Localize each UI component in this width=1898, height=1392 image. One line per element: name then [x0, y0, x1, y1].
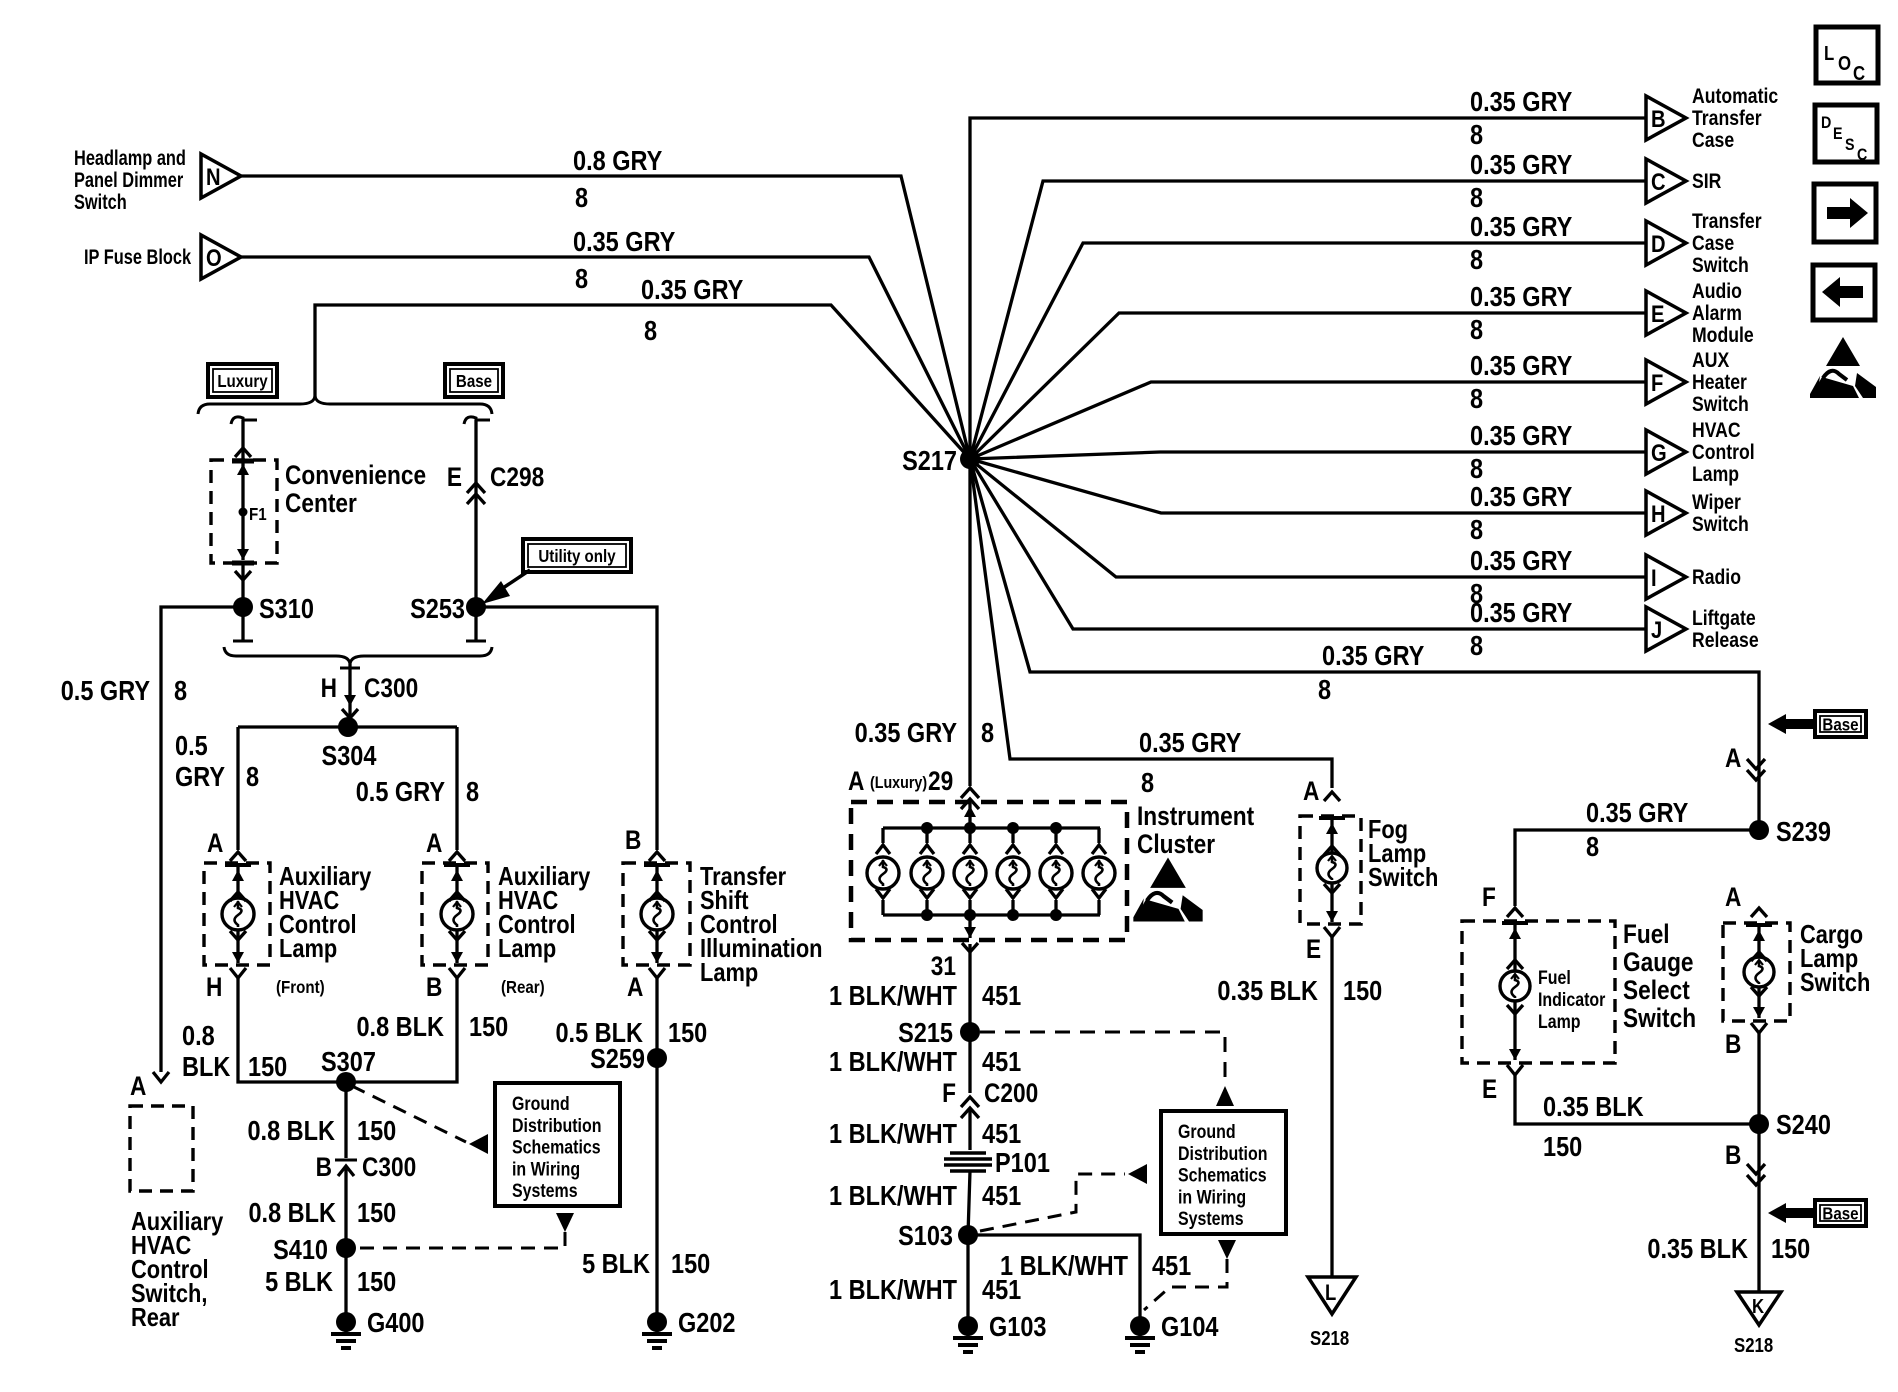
svg-text:O: O — [206, 244, 222, 271]
wire cluster 31 to S215 — [968, 944, 971, 1032]
label 8 (convenience wire) — [644, 316, 657, 346]
svg-text:150: 150 — [1771, 1234, 1810, 1264]
svg-text:0.35 GRY: 0.35 GRY — [1470, 150, 1572, 180]
svg-text:0.35 BLK: 0.35 BLK — [1217, 976, 1318, 1006]
component box Instrument Cluster (dashed) — [851, 802, 1127, 940]
brace under S310/S253 — [224, 647, 492, 664]
svg-text:Distribution: Distribution — [1178, 1142, 1267, 1164]
wire to S239 — [1757, 760, 1760, 830]
svg-text:K: K — [1752, 1295, 1765, 1318]
label 150 (S240-K wire) — [1771, 1234, 1810, 1264]
svg-text:8: 8 — [1470, 515, 1483, 545]
reference arrow Base (bottom right) — [1768, 1200, 1866, 1226]
label 0.35 GRY (row B) — [1470, 87, 1572, 117]
wire 0.35 GRY from O to S217 — [241, 257, 970, 459]
label 0.35 GRY (row C) — [1470, 150, 1572, 180]
svg-text:Transfer: Transfer — [1692, 107, 1762, 131]
label 451 (S103-G103) — [982, 1275, 1021, 1305]
junction dot bottom bus x1013 — [1007, 909, 1019, 921]
svg-text:Heater: Heater — [1692, 371, 1747, 395]
svg-text:A: A — [627, 972, 643, 1002]
pin 31 (instrument cluster) — [931, 943, 978, 981]
svg-text:0.35 BLK: 0.35 BLK — [1543, 1092, 1644, 1122]
svg-text:Alarm: Alarm — [1692, 302, 1742, 326]
option box Base — [445, 364, 503, 397]
junction dot bottom bus x927 — [921, 909, 933, 921]
svg-text:C: C — [1853, 62, 1865, 85]
svg-text:1 BLK/WHT: 1 BLK/WHT — [829, 1275, 957, 1305]
pin A (front HVAC lamp) — [207, 828, 223, 858]
svg-text:S259: S259 — [590, 1044, 645, 1074]
splice S240 — [1749, 1110, 1831, 1140]
wire fog lamp switch to S218 L — [1330, 937, 1333, 1277]
svg-text:Base: Base — [1822, 1203, 1858, 1224]
label Convenience Center — [285, 460, 426, 518]
label 1 BLK/WHT (S103-G104) — [1000, 1251, 1128, 1281]
svg-text:Lamp: Lamp — [700, 958, 758, 987]
label 0.8 BLK (S307 wire) — [247, 1116, 335, 1146]
splice S310 — [233, 594, 314, 624]
component box Fuel Gauge Select Switch (dashed) — [1462, 921, 1615, 1063]
pin E (fog lamp switch) — [1306, 927, 1340, 964]
junction dot top bus x970 — [964, 822, 976, 834]
svg-text:Switch: Switch — [1623, 1003, 1696, 1033]
connector D destination label — [1692, 210, 1762, 278]
svg-text:S410: S410 — [273, 1235, 328, 1265]
svg-text:0.35 GRY: 0.35 GRY — [1470, 598, 1572, 628]
svg-text:8: 8 — [1470, 631, 1483, 661]
label 8 (row B) — [1470, 120, 1483, 150]
svg-text:Ground: Ground — [1178, 1121, 1236, 1143]
wire S259 to G202 — [655, 1058, 658, 1315]
label 0.35 GRY (row J) — [1470, 598, 1572, 628]
label 8 (rear lamp wire) — [466, 777, 479, 807]
label 150 (S259-G202 wire) — [671, 1249, 710, 1279]
connector C300 pin B — [316, 1152, 417, 1182]
reference arrow Base (top right) — [1768, 711, 1866, 737]
svg-text:S103: S103 — [898, 1221, 953, 1251]
label 0.35 GRY (O wire) — [573, 227, 675, 257]
svg-text:HVAC: HVAC — [1692, 419, 1741, 443]
lamp element (cargo lamp switch) — [1744, 925, 1774, 1018]
label 0.35 GRY (row F) — [1470, 351, 1572, 381]
label 0.35 GRY (row E) — [1470, 282, 1572, 312]
label 150 (S307 wire) — [357, 1116, 396, 1146]
legend box arrow right — [1814, 184, 1876, 242]
connector L (S218) — [1308, 1277, 1356, 1349]
wire S239 to fuel gauge select switch F — [1507, 830, 1759, 917]
wire 0.35 GRY from convenience center to S217 — [315, 305, 970, 459]
svg-text:0.8 GRY: 0.8 GRY — [573, 146, 662, 176]
cluster illumination lamp 4 — [997, 828, 1029, 915]
svg-text:5 BLK: 5 BLK — [582, 1249, 650, 1279]
svg-text:451: 451 — [982, 1119, 1021, 1149]
svg-text:Instrument: Instrument — [1137, 801, 1254, 831]
wire 0.35 GRY S217 to instrument cluster — [968, 459, 971, 786]
ground G202 — [642, 1308, 736, 1348]
label Instrument Cluster — [1137, 801, 1254, 859]
svg-text:1 BLK/WHT: 1 BLK/WHT — [829, 1119, 957, 1149]
svg-text:Liftgate: Liftgate — [1692, 607, 1756, 631]
ground G400 — [331, 1308, 425, 1348]
wire 0.35 GRY S217 to B — [970, 118, 1646, 459]
svg-text:Indicator: Indicator — [1538, 989, 1605, 1011]
svg-text:0.35 GRY: 0.35 GRY — [1470, 421, 1572, 451]
legend ESD symbol — [1810, 337, 1876, 398]
svg-text:Systems: Systems — [1178, 1208, 1244, 1230]
svg-text:Case: Case — [1692, 232, 1734, 256]
wire rear lamp B to S307 — [346, 978, 457, 1082]
connector N — [201, 154, 241, 198]
svg-text:8: 8 — [1586, 832, 1599, 862]
svg-text:1 BLK/WHT: 1 BLK/WHT — [1000, 1251, 1128, 1281]
dashed reference box 2 to G104 wire — [1144, 1240, 1236, 1310]
label 8 (cluster feed) — [981, 718, 994, 748]
svg-text:Wiper: Wiper — [1692, 491, 1741, 515]
svg-text:8: 8 — [981, 718, 994, 748]
wire 0.35 GRY S217 to F — [970, 382, 1646, 459]
wire S304 to front lamp A — [230, 727, 246, 861]
label 0.35 GRY (row I) — [1470, 546, 1572, 576]
dashed reference arrow box 1 to S410 wire — [352, 1213, 574, 1248]
connector N label (Headlamp and Panel Dimmer Switch) — [74, 146, 186, 213]
svg-text:AUX: AUX — [1692, 349, 1729, 373]
junction dot top bus x1013 — [1007, 822, 1019, 834]
svg-text:Fuel: Fuel — [1623, 919, 1670, 949]
connector H — [1646, 491, 1686, 535]
svg-text:8: 8 — [1318, 675, 1331, 705]
label Fuel Gauge Select Switch — [1623, 919, 1696, 1033]
label 0.35 BLK (E-S240 wire) — [1543, 1092, 1644, 1122]
component box Cargo Lamp Switch (dashed) — [1723, 923, 1790, 1021]
svg-text:150: 150 — [1343, 976, 1382, 1006]
svg-text:Utility only: Utility only — [538, 546, 616, 567]
svg-text:BLK: BLK — [182, 1052, 231, 1082]
svg-text:Lamp: Lamp — [1538, 1011, 1581, 1033]
splice S253 — [410, 594, 486, 624]
svg-text:150: 150 — [1543, 1132, 1582, 1162]
component box Fog Lamp Switch (dashed) — [1300, 816, 1361, 924]
svg-text:(Luxury): (Luxury) — [870, 774, 927, 792]
svg-text:S240: S240 — [1776, 1110, 1831, 1140]
svg-text:D: D — [1821, 114, 1831, 132]
svg-text:Case: Case — [1692, 129, 1734, 153]
svg-text:0.35 GRY: 0.35 GRY — [1470, 482, 1572, 512]
connector J destination label — [1692, 607, 1759, 653]
brace over Luxury/Base branches — [198, 396, 492, 414]
label 1 BLK/WHT (P101-S103) — [829, 1181, 957, 1211]
svg-text:B: B — [426, 972, 442, 1002]
svg-text:451: 451 — [982, 981, 1021, 1011]
svg-text:C300: C300 — [364, 673, 418, 703]
svg-text:L: L — [1325, 1282, 1336, 1306]
svg-text:Select: Select — [1623, 975, 1690, 1005]
wire 0.35 GRY S217 to H — [970, 459, 1646, 513]
splice S239 — [1749, 817, 1831, 847]
svg-text:G103: G103 — [989, 1312, 1047, 1342]
svg-text:S307: S307 — [321, 1047, 376, 1077]
svg-text:A: A — [130, 1071, 146, 1101]
cluster illumination lamp 3 — [954, 828, 986, 915]
junction dot bottom bus x1056 — [1050, 909, 1062, 921]
svg-text:Gauge: Gauge — [1623, 947, 1694, 977]
label 8 (right side wire) — [1318, 675, 1331, 705]
svg-text:1 BLK/WHT: 1 BLK/WHT — [829, 981, 957, 1011]
label 150 (rear lamp ground wire) — [469, 1012, 508, 1042]
wire C200 to P101 — [968, 1108, 971, 1150]
svg-text:C200: C200 — [984, 1078, 1038, 1108]
label 451 (S215-C200) — [982, 1047, 1021, 1077]
component box Auxiliary HVAC Control Lamp rear (dashed) — [422, 863, 488, 965]
label 1 BLK/WHT (S215-C200) — [829, 1047, 957, 1077]
connector F destination label — [1692, 349, 1749, 417]
pin B (transfer lamp) — [625, 825, 641, 855]
svg-text:0.8 BLK: 0.8 BLK — [356, 1012, 444, 1042]
svg-text:P101: P101 — [995, 1148, 1050, 1178]
svg-text:B: B — [1725, 1029, 1741, 1059]
connector C200 pin F — [942, 1078, 1038, 1118]
pin B (cargo lamp switch) — [1725, 1023, 1767, 1059]
pin E (fuel gauge select switch) — [1482, 1065, 1523, 1104]
svg-text:S253: S253 — [410, 594, 465, 624]
wire Luxury branch to F1 fuse — [231, 417, 257, 462]
label 8 (fog lamp wire) — [1141, 768, 1154, 798]
wire 0.35 GRY S217 to C — [970, 181, 1646, 459]
svg-text:F: F — [942, 1078, 956, 1108]
svg-text:0.35 BLK: 0.35 BLK — [1647, 1234, 1748, 1264]
svg-text:Switch: Switch — [1692, 513, 1749, 537]
splice S215 — [898, 1018, 980, 1048]
label 8 (S239-F wire) — [1586, 832, 1599, 862]
connector O label (IP Fuse Block) — [84, 245, 192, 268]
svg-text:in Wiring: in Wiring — [512, 1158, 580, 1180]
label 0.35 GRY (cluster feed) — [855, 718, 957, 748]
label Transfer Shift Control Illumination Lamp — [700, 862, 822, 987]
svg-text:8: 8 — [174, 676, 187, 706]
connector E — [1646, 291, 1686, 335]
wire 0.35 GRY S217 to fog lamp switch — [970, 459, 1332, 788]
svg-text:0.5 GRY: 0.5 GRY — [61, 676, 150, 706]
svg-text:Base: Base — [1822, 714, 1858, 735]
pin B below S240 — [1725, 1140, 1765, 1185]
svg-text:E: E — [1651, 300, 1664, 327]
svg-text:150: 150 — [357, 1198, 396, 1228]
label 8 (front lamp wire) — [246, 762, 259, 792]
svg-text:S: S — [1845, 136, 1855, 154]
pin A (Aux HVAC switch rear) — [130, 1071, 146, 1101]
svg-text:451: 451 — [982, 1181, 1021, 1211]
svg-text:8: 8 — [1141, 768, 1154, 798]
splice S103 — [898, 1221, 978, 1251]
svg-text:S304: S304 — [322, 741, 377, 771]
svg-text:Switch: Switch — [74, 190, 127, 213]
pin F (fuel gauge select switch) — [1482, 882, 1496, 912]
svg-text:(Rear): (Rear) — [501, 977, 545, 998]
svg-text:Headlamp and: Headlamp and — [74, 146, 186, 169]
connector G destination label — [1692, 419, 1755, 487]
svg-text:150: 150 — [671, 1249, 710, 1279]
svg-text:0.8: 0.8 — [182, 1021, 215, 1051]
svg-text:150: 150 — [469, 1012, 508, 1042]
svg-text:F: F — [1482, 882, 1496, 912]
svg-text:Audio: Audio — [1692, 280, 1742, 304]
svg-text:B: B — [316, 1152, 332, 1182]
svg-text:0.35 GRY: 0.35 GRY — [1139, 728, 1241, 758]
label 8 (row G) — [1470, 454, 1483, 484]
label Fog Lamp Switch — [1368, 815, 1438, 892]
label 8 (row I) — [1470, 579, 1483, 609]
svg-text:Switch: Switch — [1692, 393, 1749, 417]
svg-text:F1: F1 — [249, 504, 267, 525]
label 8 (row D) — [1470, 245, 1483, 275]
svg-text:H: H — [1651, 500, 1666, 527]
svg-text:S218: S218 — [1310, 1327, 1349, 1350]
label Auxiliary HVAC Control Switch, Rear — [131, 1207, 224, 1332]
svg-text:451: 451 — [1152, 1251, 1191, 1281]
svg-text:S239: S239 — [1776, 817, 1831, 847]
svg-text:SIR: SIR — [1692, 170, 1721, 194]
wire fuel E to S240 — [1515, 1075, 1759, 1124]
label 150 (front lamp ground wire) — [248, 1052, 287, 1082]
connector D — [1646, 221, 1686, 265]
connector J — [1646, 607, 1686, 651]
splice S307 — [321, 1047, 376, 1092]
svg-text:0.35 GRY: 0.35 GRY — [855, 718, 957, 748]
dashed reference S103 to box 2 — [980, 1164, 1147, 1231]
lamp element (fog lamp switch) — [1317, 818, 1347, 922]
svg-text:A: A — [1725, 743, 1741, 773]
wire S310 to Auxiliary HVAC Control Switch Rear — [153, 607, 243, 1082]
svg-text:F: F — [1651, 369, 1663, 396]
svg-text:S215: S215 — [898, 1018, 953, 1048]
svg-text:G: G — [1651, 439, 1667, 466]
svg-text:0.8 BLK: 0.8 BLK — [247, 1116, 335, 1146]
component box Auxiliary HVAC Control Switch Rear (dashed) — [130, 1106, 193, 1191]
callout box Utility only — [523, 539, 631, 572]
label 0.5 GRY (rear lamp wire) — [356, 777, 445, 807]
reference box Ground Distribution Schematics 2 — [1161, 1111, 1286, 1234]
svg-text:0.35 GRY: 0.35 GRY — [1470, 87, 1572, 117]
svg-text:8: 8 — [1470, 120, 1483, 150]
connector B destination label — [1692, 85, 1778, 153]
svg-text:0.35 GRY: 0.35 GRY — [641, 275, 743, 305]
svg-text:8: 8 — [1470, 183, 1483, 213]
label 0.35 GRY (fog lamp wire) — [1139, 728, 1241, 758]
wire S410 to G400 — [344, 1248, 347, 1315]
pin A above S239 — [1725, 743, 1765, 780]
svg-text:0.35 GRY: 0.35 GRY — [1470, 546, 1572, 576]
wire S215 to C200 — [968, 1032, 971, 1093]
svg-text:B: B — [1651, 105, 1666, 132]
label 8 (row J) — [1470, 631, 1483, 661]
svg-text:0.5 GRY: 0.5 GRY — [356, 777, 445, 807]
svg-text:0.35 GRY: 0.35 GRY — [1470, 351, 1572, 381]
svg-text:Distribution: Distribution — [512, 1114, 601, 1136]
lamp element (transfer shift) — [641, 865, 673, 963]
svg-text:8: 8 — [575, 183, 588, 213]
label 0.5 GRY (S310 left wire) — [61, 676, 150, 706]
pin B (rear HVAC lamp) — [426, 968, 465, 1002]
wire 0.35 GRY S217 to right side — [970, 459, 1759, 760]
svg-text:E: E — [1306, 934, 1321, 964]
svg-text:8: 8 — [1470, 454, 1483, 484]
svg-text:Panel Dimmer: Panel Dimmer — [74, 168, 184, 191]
label 451 (C200-P101) — [982, 1119, 1021, 1149]
label 0.8 BLK (rear lamp ground wire) — [356, 1012, 444, 1042]
svg-text:0.35 GRY: 0.35 GRY — [573, 227, 675, 257]
label 5 BLK (S259-G202 wire) — [582, 1249, 650, 1279]
svg-text:0.5: 0.5 — [175, 731, 208, 761]
component box Auxiliary HVAC Control Lamp front (dashed) — [204, 863, 270, 965]
label Auxiliary HVAC Control Lamp (front) — [276, 862, 372, 997]
svg-text:O: O — [1838, 52, 1851, 75]
label 150 (S410-G400 wire) — [357, 1267, 396, 1297]
label 150 (E-S240 wire) — [1543, 1132, 1582, 1162]
option box Luxury — [208, 364, 277, 397]
svg-text:S217: S217 — [902, 446, 957, 476]
label 0.8 BLK (C300-S410 wire) — [248, 1198, 336, 1228]
svg-text:0.8 BLK: 0.8 BLK — [248, 1198, 336, 1228]
connector E destination label — [1692, 280, 1754, 348]
svg-text:0.35 GRY: 0.35 GRY — [1322, 641, 1424, 671]
connector C300 pin H — [321, 664, 419, 727]
svg-text:A: A — [1725, 882, 1741, 912]
label 8 (row F) — [1470, 384, 1483, 414]
svg-text:Systems: Systems — [512, 1180, 578, 1202]
svg-text:1 BLK/WHT: 1 BLK/WHT — [829, 1181, 957, 1211]
label 451 (31-S215) — [982, 981, 1021, 1011]
svg-text:Automatic: Automatic — [1692, 85, 1778, 109]
legend box arrow left — [1813, 265, 1875, 320]
label 0.8 GRY — [573, 146, 662, 176]
junction dot top bus x927 — [921, 822, 933, 834]
connector C298 pin E — [447, 462, 544, 504]
svg-text:0.35 GRY: 0.35 GRY — [1470, 282, 1572, 312]
svg-text:8: 8 — [246, 762, 259, 792]
pin A (cargo lamp switch) — [1725, 882, 1767, 917]
svg-text:Switch: Switch — [1368, 863, 1438, 892]
label 0.5 GRY (front lamp wire) — [175, 731, 225, 792]
svg-text:C: C — [1857, 146, 1867, 164]
splice S410 — [273, 1235, 356, 1265]
connector K (S218) — [1734, 1292, 1781, 1356]
label Auxiliary HVAC Control Lamp (rear) — [498, 862, 591, 997]
svg-text:E: E — [1833, 125, 1843, 143]
connector C destination label — [1692, 170, 1721, 194]
wire front lamp H to S307 — [238, 978, 346, 1082]
svg-text:A: A — [426, 828, 442, 858]
svg-text:1 BLK/WHT: 1 BLK/WHT — [829, 1047, 957, 1077]
wire S240 to K — [1757, 1124, 1760, 1292]
wire 0.35 GRY S217 to J — [970, 459, 1646, 629]
label 0.35 GRY (row D) — [1470, 212, 1572, 242]
svg-text:Base: Base — [456, 371, 492, 392]
wire S304 to rear lamp A — [449, 727, 465, 861]
svg-text:E: E — [1482, 1074, 1497, 1104]
connector chevrons at cluster pin 29 — [961, 788, 979, 809]
svg-text:S218: S218 — [1734, 1334, 1773, 1357]
wire Base branch to C298 — [464, 417, 490, 607]
dashed reference S215 to box 2 — [980, 1032, 1234, 1106]
wire P101 to S103 — [968, 1171, 970, 1235]
svg-text:A: A — [207, 828, 223, 858]
svg-text:150: 150 — [668, 1018, 707, 1048]
label 0.35 GRY (row G) — [1470, 421, 1572, 451]
instrument cluster internal ground lead — [964, 915, 976, 938]
pin A (rear HVAC lamp) — [426, 828, 442, 858]
label 5 BLK (S410-G400 wire) — [265, 1267, 333, 1297]
svg-text:J: J — [1651, 616, 1662, 643]
